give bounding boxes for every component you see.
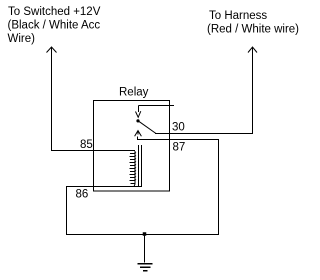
svg-text:30: 30 [172, 121, 185, 133]
wire: pin 85 to +12V [51, 150, 129, 152]
svg-text:86: 86 [76, 189, 89, 201]
wire: pin 86 to ground bus [66, 186, 141, 188]
actuator arrow (up) [135, 131, 142, 137]
wire: pin 87 line [137, 137, 219, 140]
svg-text:Relay: Relay [119, 87, 149, 99]
relay coil L1 [129, 151, 136, 187]
svg-text:87: 87 [173, 142, 186, 154]
ground symbol [138, 264, 153, 271]
svg-text:To Harness: To Harness [209, 10, 267, 22]
junction dot at ground node [143, 232, 147, 236]
wire: bottom ground bus [66, 234, 219, 236]
wire: harness arrow (to Harness) [248, 47, 257, 134]
svg-text:(Black / White Acc: (Black / White Acc [8, 20, 101, 32]
wire: left drop from 86 [66, 186, 68, 234]
switch armature to pin 30 [139, 121, 156, 133]
switch common arrowhead (down) [136, 111, 141, 117]
relay box U1 [94, 101, 170, 192]
svg-text:85: 85 [80, 139, 93, 151]
svg-text:Wire): Wire) [8, 33, 36, 45]
label: To Harness (Red / White wire) [207, 10, 299, 36]
switch pivot dot [136, 119, 139, 122]
wire: pin 30 to harness [155, 133, 253, 135]
svg-text:(Red / White wire): (Red / White wire) [207, 24, 299, 36]
ground stem [144, 234, 146, 263]
svg-text:To Switched +12V: To Switched +12V [8, 6, 101, 18]
wire: +12V ACC arrow (to Switched +12V) [47, 47, 57, 150]
switch common stub [139, 106, 175, 113]
label: To Switched +12V (Black / White Acc Wire) [8, 6, 101, 45]
wire: right drop from 87 [218, 139, 220, 235]
relay core [139, 145, 142, 187]
